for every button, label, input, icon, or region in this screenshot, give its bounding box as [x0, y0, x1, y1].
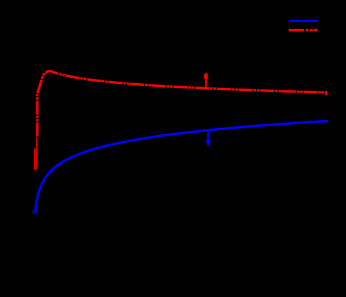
legend red dot 3 [314, 29, 317, 32]
legend red dash [289, 29, 304, 32]
legend blue line [289, 20, 318, 22]
blue error bar at x=208 [207, 132, 209, 146]
blue error bar cap [206, 140, 211, 142]
red thin line A [34, 149, 36, 170]
red error bar blob [204, 74, 208, 79]
red error bar at x=206 [205, 79, 207, 88]
red final dot [325, 91, 327, 95]
red main dash-dot curve [37, 71, 324, 136]
blue main curve [36, 121, 329, 214]
legend red dot 1 [306, 29, 309, 32]
red error bar nub [205, 73, 207, 74]
blue detached start stroke [32, 210, 34, 214]
legend red dot 2 [310, 29, 313, 32]
red thin line B [36, 137, 38, 170]
